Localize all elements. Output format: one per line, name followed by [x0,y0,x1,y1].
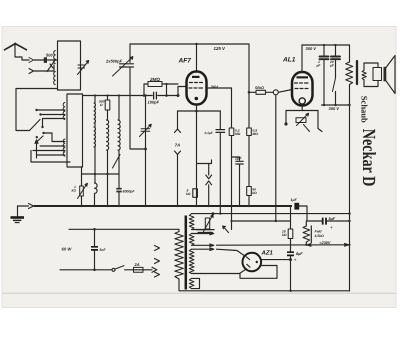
svg-text:kΩ: kΩ [282,233,287,237]
svg-text:Ω: Ω [99,103,103,107]
svg-text:300 V: 300 V [306,46,317,51]
svg-text:kΩ: kΩ [186,192,191,196]
svg-text:125 V: 125 V [214,46,227,51]
svg-text:MΩ: MΩ [235,132,241,136]
svg-text:≈230V: ≈230V [320,241,331,245]
svg-text:500: 500 [46,53,53,58]
svg-text:1µF: 1µF [291,198,298,202]
svg-text:8000pF: 8000pF [123,189,136,193]
svg-text:Schaub: Schaub [360,96,370,123]
svg-text:AL1: AL1 [282,57,296,64]
svg-text:kΩ: kΩ [72,189,77,193]
svg-text:2µF: 2µF [234,157,242,161]
svg-text:Neckar D: Neckar D [358,129,378,187]
svg-text:8µF: 8µF [296,252,303,256]
svg-text:AZ1: AZ1 [261,250,274,257]
svg-text:300 V: 300 V [329,106,340,111]
svg-text:8µF: 8µF [329,217,336,221]
svg-text:5nF: 5nF [100,248,107,252]
svg-text:kΩ: kΩ [252,191,257,195]
svg-text:100pF: 100pF [148,100,160,105]
svg-text:60 W: 60 W [62,246,73,251]
svg-text:26V: 26V [210,85,220,90]
svg-text:4,5kΩ: 4,5kΩ [314,234,325,238]
svg-text:2x500pF: 2x500pF [105,59,123,64]
svg-text:+: + [294,258,297,264]
svg-text:MΩ: MΩ [253,132,259,136]
svg-text:2MΩ: 2MΩ [149,77,160,82]
svg-text:+: + [330,225,333,231]
svg-text:50kΩ: 50kΩ [255,86,264,90]
svg-text:2A: 2A [134,262,140,267]
svg-text:AF7: AF7 [178,58,192,65]
svg-text:0,1µF: 0,1µF [205,131,214,135]
svg-text:7A: 7A [175,143,180,148]
